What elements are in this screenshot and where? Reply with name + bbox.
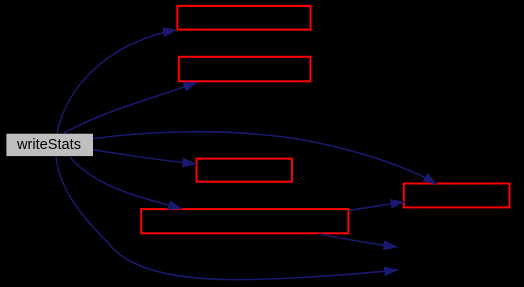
wire edge writeStats->A bbox=[57, 30, 177, 133]
wire edge writeStats->B bbox=[64, 82, 197, 133]
svg-text:writeStats: writeStats bbox=[16, 137, 81, 153]
wire edge writeStats->hidden node G (big bottom curve) bbox=[56, 157, 398, 279]
wire edge writeStats->D bbox=[70, 157, 182, 209]
node writeStats (grey box) bbox=[6, 134, 93, 156]
node C (red box, small middle) bbox=[197, 159, 292, 182]
node E (red box, right) bbox=[404, 184, 510, 208]
node A (red box, top) bbox=[177, 6, 310, 30]
wire edge D->E bbox=[349, 202, 405, 211]
wire edge writeStats->C bbox=[93, 150, 196, 164]
node B (red box, second) bbox=[179, 57, 311, 82]
node D (red box, wide) bbox=[141, 209, 348, 233]
wire edge writeStats->E (long top curve) bbox=[93, 132, 437, 184]
wire edge D->hidden node F bbox=[319, 234, 398, 247]
